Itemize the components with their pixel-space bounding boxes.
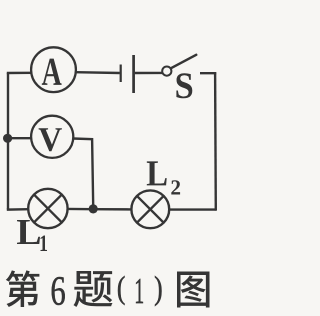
caption text: 题 <box>73 271 112 307</box>
battery cell B1: short plate (negative) <box>120 65 122 83</box>
switch S: open blade <box>171 55 196 68</box>
switch S: pivot contact circle <box>162 67 171 76</box>
wire lamp L2 to bottom-right corner <box>169 208 216 210</box>
label L1 <box>17 220 47 251</box>
caption text: 图 <box>177 271 209 307</box>
wire junction to voltmeter <box>8 137 32 139</box>
lamp L2 <box>131 190 169 228</box>
ammeter A <box>31 47 76 92</box>
voltmeter V <box>31 116 73 158</box>
caption text: 6 <box>52 277 65 305</box>
node a: junction dot on left wire at voltmeter branch <box>3 134 12 143</box>
wire battery to switch <box>135 72 162 74</box>
caption text: 1 <box>136 279 143 303</box>
wire lamp L1 to node b <box>68 208 93 211</box>
battery cell B1: long plate (positive) <box>132 55 135 93</box>
caption text: ) <box>155 276 162 306</box>
wire bottom-left horizontal to lamp L1 <box>8 208 29 209</box>
wire voltmeter right, corner down to node b <box>73 139 93 207</box>
wire top-left horizontal to ammeter <box>7 72 32 75</box>
wire node b to lamp L2 <box>93 208 131 211</box>
wire left vertical (top-left corner down to bottom-left corner) <box>7 73 9 210</box>
lamp L1 <box>28 189 67 228</box>
label S (switch) <box>176 73 192 98</box>
caption text: 第 <box>6 270 40 307</box>
wire switch fixed contact to top-right corner <box>200 72 216 74</box>
node b: junction dot between L1 and L2 <box>89 204 98 213</box>
wire ammeter to battery <box>76 71 120 74</box>
wire right vertical <box>214 72 217 210</box>
caption text: ( <box>118 276 125 305</box>
label L2 <box>147 161 180 194</box>
